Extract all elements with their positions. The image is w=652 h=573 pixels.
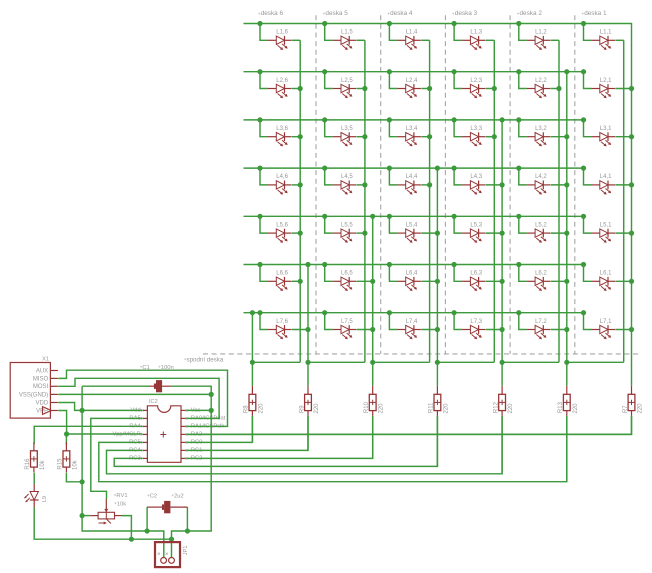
svg-text:L4,3: L4,3 (470, 174, 482, 180)
svg-text:2u2: 2u2 (174, 494, 184, 500)
LED L1,4 (397, 36, 421, 50)
LED L1,6 (268, 36, 292, 50)
junction cathode L6,1 (629, 279, 634, 284)
wire cathode L7,5 (357, 329, 373, 331)
LED L6,6 (268, 277, 292, 291)
wire anode drop L7,3 (454, 313, 462, 330)
svg-text:L4,6: L4,6 (276, 174, 288, 180)
wire anode drop L1,3 (454, 24, 462, 41)
wire anode drop L7,5 (325, 313, 333, 330)
wire cathode L4,1 (615, 184, 631, 186)
svg-text:L6,6: L6,6 (276, 271, 288, 277)
wire cathode L4,6 (292, 184, 300, 186)
junction anode tap L6,6 (257, 262, 262, 267)
svg-text:R10: R10 (364, 401, 370, 413)
wire cathode L6,1 (615, 280, 631, 282)
svg-text:L3,4: L3,4 (406, 126, 418, 132)
svg-text:L7,5: L7,5 (341, 319, 353, 325)
svg-text:VDD: VDD (36, 400, 49, 406)
LED L3,5 (333, 132, 357, 146)
LED L3,4 (397, 132, 421, 146)
junction anode tap L3,4 (387, 117, 392, 122)
LED L6,5 (333, 277, 357, 291)
LED L5,1 (592, 229, 616, 243)
junction cathode L6,2 (564, 279, 569, 284)
wire RC1 to R9 (186, 416, 308, 451)
wire bus net 4 (244, 167, 584, 169)
connector JP1 (155, 542, 180, 567)
wire RA2 to R7 (186, 416, 631, 435)
wire cathode L7,6 (292, 329, 308, 331)
resistor R7 (628, 386, 635, 416)
junction V2 top deska 5 (370, 214, 375, 219)
wire X1 pin3 to IC2 RA0/ICSPdat (58, 378, 219, 418)
junction cathode L3,1 (629, 134, 634, 139)
LED L6,1 (592, 277, 616, 291)
wire RC4 to R12 (107, 416, 503, 474)
junction anode tap L6,3 (452, 262, 457, 267)
wire anode drop L2,1 (584, 72, 592, 89)
svg-text:R15: R15 (58, 458, 64, 470)
junction cathode L4,4 (427, 182, 432, 187)
wire cathode L5,4 (421, 232, 437, 234)
junction cathode L3,3 (492, 134, 497, 139)
wire cathode L1,1 (615, 39, 623, 41)
junction anode tap L1,5 (322, 21, 327, 26)
wire anode drop L2,2 (519, 72, 527, 89)
wire cathode column V2 deska 5 (372, 216, 374, 385)
svg-text:L5,1: L5,1 (600, 222, 612, 228)
wire anode drop L7,6 (260, 313, 268, 330)
wire cathode L1,3 (486, 39, 494, 41)
svg-text:L6,1: L6,1 (600, 271, 612, 277)
svg-text:L3,2: L3,2 (535, 126, 547, 132)
svg-text:L2,4: L2,4 (406, 78, 418, 84)
connector X1 (10, 363, 58, 419)
board outline dashed verticals (deska 6..1) (316, 15, 575, 354)
junction anode tap L7,4 (387, 310, 392, 315)
svg-text:L4,1: L4,1 (600, 174, 612, 180)
svg-text:L3,1: L3,1 (600, 126, 612, 132)
svg-text:L5,4: L5,4 (406, 222, 418, 228)
junction cathode L7,1 (629, 327, 634, 332)
svg-text:JP1: JP1 (183, 546, 189, 556)
wire cathode column V2 deska 4 (436, 168, 438, 386)
junction V2 top deska 3 (500, 117, 505, 122)
junction anode tap L4,6 (257, 166, 262, 171)
wire cathode column V1 deska 2 (558, 40, 560, 362)
svg-text:C2: C2 (150, 494, 157, 500)
wire R12 bottom to PIC (501, 416, 503, 474)
LED L6,2 (527, 277, 551, 291)
JP1 pin origin marks (158, 553, 168, 555)
wire C1 right to GND corner (171, 386, 211, 558)
junction cathode L2,2 (556, 86, 561, 91)
wire R15 bottom to Vdd (66, 473, 82, 482)
wire cathode L7,1 (615, 329, 631, 331)
wire cathode L3,4 (421, 136, 429, 138)
junction cathode L7,2 (564, 327, 569, 332)
junction anode tap L3,3 (452, 117, 457, 122)
wire anode drop L1,2 (519, 24, 527, 41)
junction bus7 drop (250, 310, 255, 315)
svg-text:R13: R13 (558, 401, 564, 413)
svg-text:220: 220 (638, 403, 644, 414)
junction cathode L7,4 (435, 327, 440, 332)
wire anode drop L4,3 (454, 168, 462, 185)
LED L3,1 (592, 132, 616, 146)
wire C2 right drop (186, 507, 188, 531)
wire junction R11 to V1 deska 3 (437, 361, 494, 363)
svg-text:L7,4: L7,4 (406, 319, 418, 325)
junction cathode L2,6 (298, 86, 303, 91)
wire cathode L1,6 (292, 39, 300, 41)
junction cathode L5,4 (435, 231, 440, 236)
junction anode tap L5,2 (516, 214, 521, 219)
wire cathode L6,6 (292, 280, 300, 282)
capacitor C2 (147, 501, 187, 513)
junction anode tap L4,2 (516, 166, 521, 171)
junction anode tap L1,3 (452, 21, 457, 26)
junction cathode L3,4 (427, 134, 432, 139)
wire cathode L1,2 (551, 39, 559, 41)
wire anode drop L2,5 (325, 72, 333, 89)
wire anode drop L2,3 (454, 72, 462, 89)
wire cathode L7,4 (421, 329, 437, 331)
wire anode drop L4,4 (389, 168, 397, 185)
LED L5,3 (462, 229, 486, 243)
wire anode drop L7,4 (389, 313, 397, 330)
wire cathode column V1 deska 4 (429, 40, 431, 362)
svg-text:L7,3: L7,3 (470, 319, 482, 325)
wire RC0 to R8 (186, 416, 252, 443)
wire cathode L3,5 (357, 136, 365, 138)
wire cathode column V1 deska 1 (623, 40, 625, 362)
wire cathode L7,3 (486, 329, 502, 331)
junction cathode L6,4 (435, 279, 440, 284)
junction cathode L7,6 (305, 327, 310, 332)
wire anode drop L3,6 (260, 120, 268, 137)
svg-text:10k: 10k (72, 459, 78, 470)
wire R8 bottom to PIC (251, 416, 253, 443)
junction anode tap L6,1 (581, 262, 586, 267)
wire anode drop L3,3 (454, 120, 462, 137)
junction V2 bottom deska 5 (370, 360, 375, 365)
svg-text:MISO: MISO (33, 376, 49, 382)
wire cathode L3,1 (615, 136, 631, 138)
wire anode drop L6,5 (325, 265, 333, 282)
junction cathode L7,5 (370, 327, 375, 332)
junction anode tap L1,6 (257, 21, 262, 26)
junction cathode L5,5 (362, 231, 367, 236)
junction cathode L5,3 (500, 231, 505, 236)
junction anode tap L5,5 (322, 214, 327, 219)
LED L7,6 (268, 325, 292, 339)
svg-text:L1,5: L1,5 (341, 30, 353, 36)
wire X1 pin2 to IC2 RA1/ICSPclk (58, 370, 227, 426)
svg-text:L2,3: L2,3 (470, 78, 482, 84)
wire X1 pin5 Vdd jog (58, 403, 82, 411)
junction anode tap L2,3 (452, 69, 457, 74)
wire cathode L3,2 (551, 136, 567, 138)
wire RV1 left to Vdd (82, 515, 90, 517)
LED L2,3 (462, 84, 486, 98)
resistor R11 (434, 386, 441, 416)
svg-text:L1,2: L1,2 (535, 30, 547, 36)
junction MCLR R15 (64, 431, 69, 436)
junction cathode L3,6 (298, 134, 303, 139)
wire cathode L6,2 (551, 280, 567, 282)
wire bus7 left drop to R8 junction (251, 313, 253, 386)
wire cathode L5,5 (357, 232, 365, 234)
svg-text:L6,4: L6,4 (406, 271, 418, 277)
junction GND IC2 Vss (209, 408, 214, 413)
junction anode tap L1,2 (516, 21, 521, 26)
wire cathode L6,4 (421, 280, 437, 282)
wire L9 cathode to GND rail (34, 507, 171, 539)
wire junction R10 to V1 deska 4 (373, 361, 430, 363)
wire anode drop L5,1 (584, 216, 592, 233)
wire cathode L4,4 (421, 184, 429, 186)
wire anode drop L6,4 (389, 265, 397, 282)
wire cathode L5,6 (292, 232, 300, 234)
wire Vdd node to IC2 Vdd (82, 409, 142, 411)
wire cathode L5,1 (615, 232, 631, 234)
junction cathode L4,2 (564, 182, 569, 187)
resistor R13 (563, 386, 570, 416)
LED L5,6 (268, 229, 292, 243)
svg-text:L7,6: L7,6 (276, 319, 288, 325)
junction GND JP1 (185, 528, 190, 533)
wire RC2 to R10 (186, 416, 373, 459)
svg-text:L5,6: L5,6 (276, 222, 288, 228)
junction anode tap L1,1 (581, 21, 586, 26)
wire anode drop L7,2 (519, 313, 527, 330)
wire R9 bottom to PIC (307, 416, 309, 451)
svg-text:L1,4: L1,4 (406, 30, 418, 36)
junction anode tap L5,1 (581, 214, 586, 219)
junction cathode L2,3 (492, 86, 497, 91)
junction anode tap L2,2 (516, 69, 521, 74)
LED L6,4 (397, 277, 421, 291)
wire anode drop L5,3 (454, 216, 462, 233)
junction anode tap L4,3 (452, 166, 457, 171)
junction cathode L4,3 (500, 182, 505, 187)
junction anode tap L5,3 (452, 214, 457, 219)
svg-text:L2,6: L2,6 (276, 78, 288, 84)
wire anode drop L1,1 (584, 24, 592, 41)
wire bus net 1 (244, 24, 632, 386)
wire cathode column V1 deska 3 (493, 40, 495, 362)
wire anode drop L3,1 (584, 120, 592, 137)
junction cathode L6,6 (298, 279, 303, 284)
wire cathode column V2 deska 6 (307, 265, 309, 386)
junction anode tap L4,5 (322, 166, 327, 171)
LED L5,2 (527, 229, 551, 243)
wire IC2 Vss stub (186, 409, 211, 411)
wire cathode column V1 deska 5 (364, 40, 366, 362)
junction anode tap L7,2 (516, 310, 521, 315)
junction anode tap L6,2 (516, 262, 521, 267)
wire R13 bottom to PIC (566, 416, 568, 482)
svg-text:AUX: AUX (36, 368, 48, 374)
svg-text:10k: 10k (40, 459, 46, 470)
svg-text:L6,5: L6,5 (341, 271, 353, 277)
junction anode tap L5,4 (387, 214, 392, 219)
junction anode tap L2,6 (257, 69, 262, 74)
svg-text:L7,2: L7,2 (535, 319, 547, 325)
wire cathode L5,2 (551, 232, 567, 234)
wire cathode column V1 deska 6 (299, 40, 301, 362)
svg-text:C1: C1 (142, 365, 149, 371)
svg-text:L2,2: L2,2 (535, 78, 547, 84)
svg-text:spodní deska: spodní deska (187, 356, 224, 363)
LED L3,2 (527, 132, 551, 146)
wire R15 top to MCLR (65, 434, 67, 444)
wire junction R13 to V1 deska 1 (567, 361, 624, 363)
svg-text:deska 3: deska 3 (455, 10, 478, 17)
X1 pin 6 polarity triangle (43, 407, 52, 415)
wire anode drop L4,5 (325, 168, 333, 185)
IC2 pin origin marks (141, 409, 187, 459)
LED L6,3 (462, 277, 486, 291)
wire cathode L4,3 (486, 184, 502, 186)
resistor R15 (63, 442, 70, 472)
wire anode drop L5,2 (519, 216, 527, 233)
wire bus net 3 (244, 119, 584, 121)
svg-text:220: 220 (258, 403, 264, 414)
svg-text:deska 4: deska 4 (390, 10, 413, 17)
LED L2,5 (333, 84, 357, 98)
junction cathode L5,2 (564, 231, 569, 236)
LED L7,3 (462, 325, 486, 339)
wire cathode L5,3 (486, 232, 502, 234)
junction cathode L7,3 (500, 327, 505, 332)
wire bus net 6 (244, 264, 584, 266)
LED L4,5 (333, 181, 357, 195)
LED L4,3 (462, 181, 486, 195)
junction V2 bottom deska 6 (305, 360, 310, 365)
wire cathode L6,5 (357, 280, 373, 282)
LED L2,4 (397, 84, 421, 98)
LED L5,5 (333, 229, 357, 243)
svg-text:deska 6: deska 6 (261, 10, 284, 17)
svg-text:deska 5: deska 5 (325, 10, 348, 17)
wire cathode L3,6 (292, 136, 300, 138)
wire cathode L2,6 (292, 88, 300, 90)
svg-text:R8: R8 (244, 405, 250, 413)
junction GND RV1 right (129, 537, 134, 542)
svg-text:L9: L9 (42, 496, 48, 502)
LED L9 (24, 484, 38, 507)
wire cathode L1,5 (357, 39, 365, 41)
svg-text:L3,6: L3,6 (276, 126, 288, 132)
junction anode tap L6,5 (322, 262, 327, 267)
svg-text:100n: 100n (161, 365, 174, 371)
junction V2 top deska 4 (435, 166, 440, 171)
junction cathode L2,5 (362, 86, 367, 91)
svg-text:R12: R12 (493, 401, 499, 413)
wire R16 bottom to LED L9 (33, 473, 35, 484)
junction cathode L2,4 (427, 86, 432, 91)
resistor R16 (31, 442, 38, 472)
junction anode tap L3,2 (516, 117, 521, 122)
wire cathode L2,2 (551, 88, 559, 90)
wire R11 bottom to PIC (436, 416, 438, 467)
svg-text:220: 220 (379, 403, 385, 414)
svg-text:220: 220 (443, 403, 449, 414)
junction anode tap L2,1 (581, 69, 586, 74)
LED L7,5 (333, 325, 357, 339)
junction cathode L6,5 (370, 279, 375, 284)
svg-text:RV1: RV1 (116, 493, 127, 499)
junction anode tap L4,4 (387, 166, 392, 171)
junction Vdd C2 (145, 528, 150, 533)
svg-text:L5,5: L5,5 (341, 222, 353, 228)
board outline dashed horizontal (spodni deska boundary) (203, 353, 640, 355)
svg-text:R9: R9 (299, 405, 305, 413)
wire cathode L2,5 (357, 88, 365, 90)
potentiometer RV1 (90, 499, 121, 525)
resistor R8 (249, 386, 256, 416)
svg-text:L3,5: L3,5 (341, 126, 353, 132)
svg-text:L4,2: L4,2 (535, 174, 547, 180)
wire anode drop L6,1 (584, 265, 592, 282)
junction anode tap L5,6 (257, 214, 262, 219)
wire cathode column V2 deska 2 (566, 72, 568, 386)
wire anode drop L2,4 (389, 72, 397, 89)
junction cathode L4,5 (362, 182, 367, 187)
LED L7,1 (592, 325, 616, 339)
wire anode drop L6,3 (454, 265, 462, 282)
wire C1 left (82, 385, 149, 387)
junction anode tap L7,5 (322, 310, 327, 315)
wire anode drop L1,6 (260, 24, 268, 41)
svg-text:L2,5: L2,5 (341, 78, 353, 84)
wire cathode L4,2 (551, 184, 567, 186)
svg-text:L3,3: L3,3 (470, 126, 482, 132)
junction anode tap L4,1 (581, 166, 586, 171)
wire junction R8 to V1 deska6 (252, 361, 300, 363)
junction anode tap L3,1 (581, 117, 586, 122)
wire anode drop L3,5 (325, 120, 333, 137)
junction anode tap L7,1 (581, 310, 586, 315)
LED L7,4 (397, 325, 421, 339)
junction anode tap L2,4 (387, 69, 392, 74)
svg-text:220: 220 (508, 403, 514, 414)
wire anode drop L2,6 (260, 72, 268, 89)
svg-text:L4,5: L4,5 (341, 174, 353, 180)
wire RC3 to R11 (114, 416, 437, 467)
wire anode drop L1,5 (325, 24, 333, 41)
wire anode drop L1,4 (389, 24, 397, 41)
LED L1,3 (462, 36, 486, 50)
wire R10 bottom to PIC (372, 416, 374, 459)
wire anode drop L5,4 (389, 216, 397, 233)
svg-text:10k: 10k (117, 501, 126, 507)
svg-text:220: 220 (314, 403, 320, 414)
wire cathode L3,3 (486, 136, 494, 138)
junction anode tap L2,5 (322, 69, 327, 74)
wire Vdd vertical (82, 386, 164, 558)
junction cathode L3,5 (362, 134, 367, 139)
junction Vdd (80, 408, 85, 413)
junction anode tap L7,3 (452, 310, 457, 315)
svg-text:L1,6: L1,6 (276, 30, 288, 36)
LED L5,4 (397, 229, 421, 243)
wire anode drop L3,2 (519, 120, 527, 137)
svg-text:deska 1: deska 1 (584, 10, 607, 17)
